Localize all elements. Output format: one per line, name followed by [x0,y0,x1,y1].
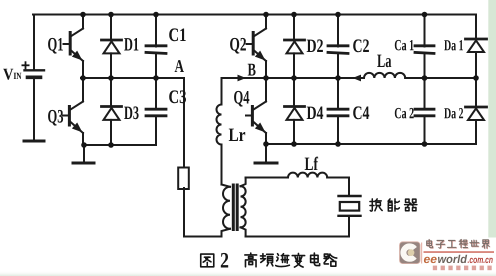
logo url world [438,255,467,263]
wire ground stub Q4 [265,144,267,162]
wire battery positive lead [33,15,35,70]
label VIN V [3,69,13,80]
wire top rail [33,14,476,16]
logo center dot [408,249,415,256]
label Q3 [48,110,63,126]
green page strip right edge [488,0,496,238]
logo red underline [424,251,495,253]
capacitor Ca2 [415,78,434,144]
label Ca1 [395,40,414,51]
transformer T1 secondary winding [241,178,246,237]
bottom page fade [0,271,496,276]
wire secondary loop bottom [246,236,349,238]
capacitor C3 [146,78,166,145]
wire battery negative lead [33,79,35,140]
wire bottom-left rail [84,144,156,146]
label Q4 [234,91,249,107]
wire secondary loop right [348,178,350,196]
wire resistor to transformer primary bottom [184,188,222,237]
node A [175,60,184,72]
transformer T1 core [233,185,237,230]
logo url ee [424,257,437,263]
label D4 [307,107,324,120]
label C2 [353,39,369,52]
logo pink divider line [421,243,422,264]
transducer element [339,196,361,237]
arrow on B rail [238,75,247,82]
wire secondary loop top with inductor Lf [246,173,349,178]
diode Da2 [466,78,487,144]
capacitor Ca1 [415,15,434,79]
label Q1 [48,38,63,54]
label Lr [229,129,245,141]
transistor Q2 [247,15,269,79]
battery plus sign [22,61,30,69]
transistor Q3 [63,78,85,145]
transformer T1 primary winding [222,185,231,237]
wire node B rail with inductor La [222,73,477,78]
diode D1 [102,15,122,79]
capacitor C2 [328,15,348,79]
capacitor C1 [146,15,166,79]
label C1 [169,28,186,41]
ground Q4 emitter [255,162,277,165]
label Q2 [230,38,246,54]
logo text 电子工程世界 shadow [427,240,490,249]
label Lf [305,157,318,170]
node B [248,64,256,76]
transistor Q1 [64,15,86,79]
wire bottom-right rail [266,143,476,145]
diode D2 [285,15,305,79]
capacitor C4 [328,78,348,144]
label D2 [307,39,323,52]
diode D3 [102,78,122,145]
label Da1 [444,40,463,50]
label D3 [124,106,138,119]
label La [377,55,391,68]
diode Da1 [466,15,487,79]
diode D4 [285,78,305,144]
ground Q3 emitter [73,162,94,165]
logo url .com.cn [468,258,493,263]
eeworld watermark logo [400,239,495,270]
label C4 [353,106,369,119]
arrow on La branch [353,75,362,82]
logo square [400,242,421,264]
logo slogan marks [433,266,492,271]
label Da2 [444,108,463,119]
ground battery [24,140,44,143]
caption 图 2 高频逆变电路 [201,253,337,267]
label D1 [124,38,138,51]
inductor Lr [217,78,222,185]
logo C mark [403,246,415,258]
resistor [178,168,189,190]
logo text 电子工程世界 [427,239,490,248]
transistor Q4 [246,78,268,144]
label VIN IN subscript [14,73,22,79]
battery VIN [25,70,45,77]
caption figure number 2 [221,253,228,268]
wire ground stub Q3 [83,145,85,162]
label C3 [169,90,186,103]
label transducer 换能器 [370,199,417,211]
label Ca2 [395,108,414,119]
wire mid-left rail node A [81,78,184,168]
